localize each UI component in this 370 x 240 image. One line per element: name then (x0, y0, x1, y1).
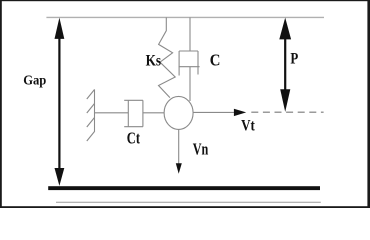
svg-text:Vn: Vn (193, 140, 209, 159)
svg-text:P: P (290, 50, 298, 67)
svg-text:Vt: Vt (241, 116, 255, 135)
svg-text:Ks: Ks (146, 52, 161, 69)
svg-text:Ct: Ct (127, 128, 140, 147)
svg-text:Gap: Gap (23, 72, 46, 87)
svg-text:C: C (210, 50, 221, 69)
